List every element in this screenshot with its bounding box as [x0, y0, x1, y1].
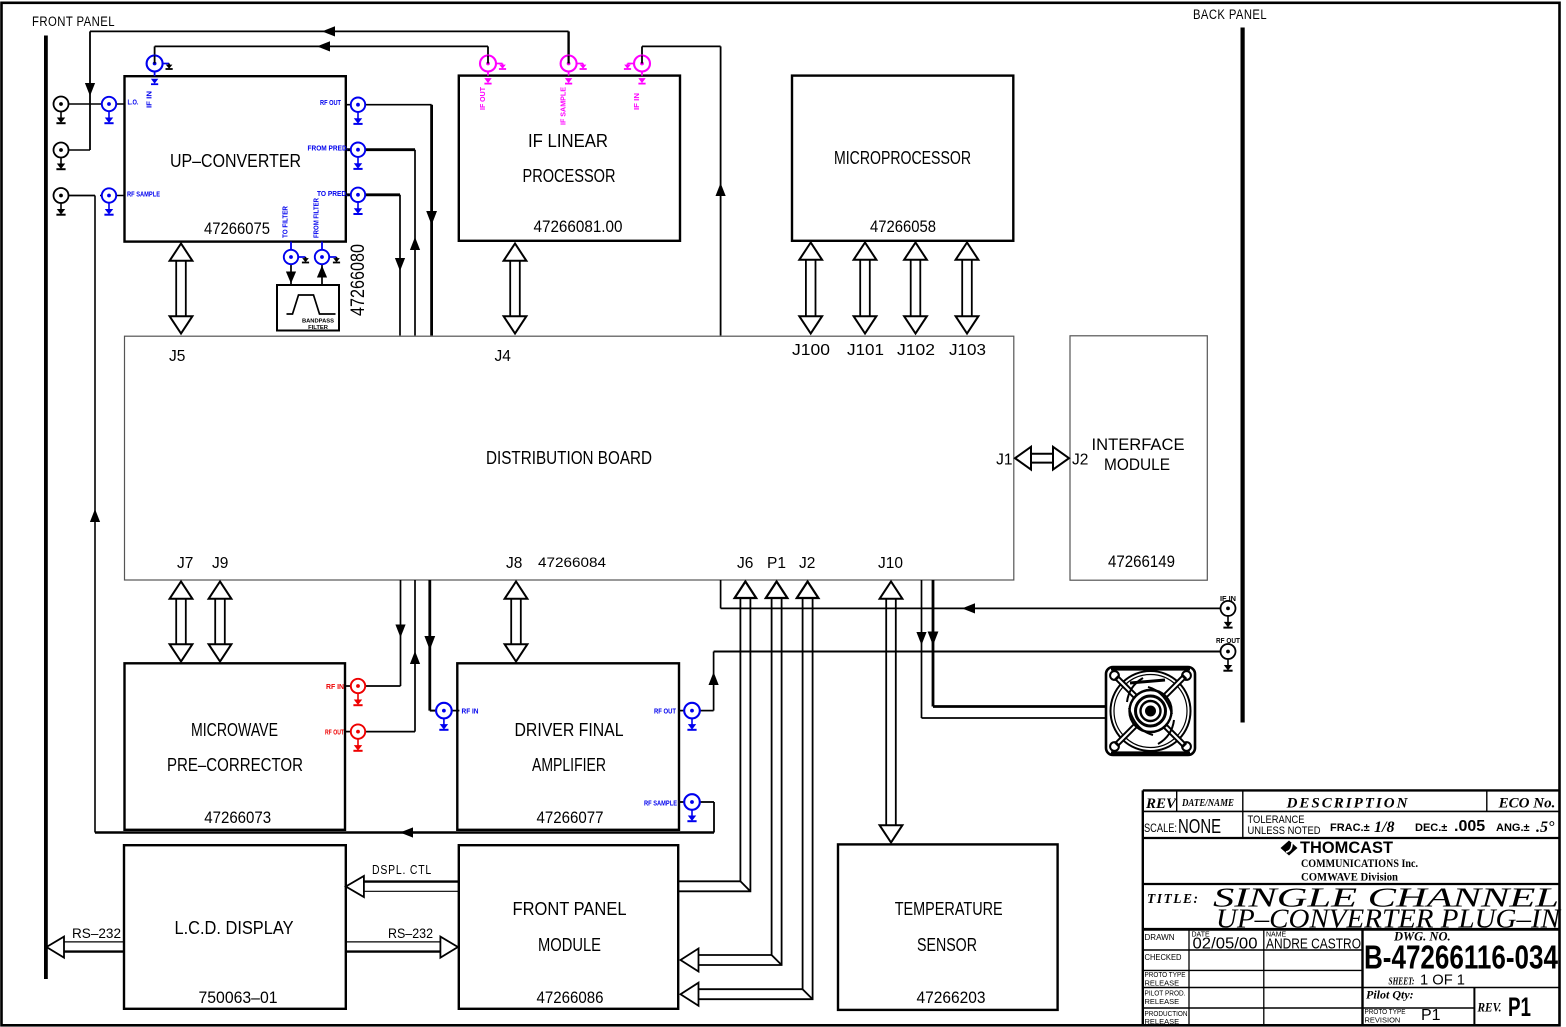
svg-text:RELEASE: RELEASE: [1145, 997, 1180, 1006]
svg-text:1 OF 1: 1 OF 1: [1420, 972, 1465, 989]
svg-text:IF OUT: IF OUT: [480, 86, 487, 110]
svg-text:J10: J10: [878, 555, 903, 572]
svg-text:FRONT PANEL: FRONT PANEL: [513, 899, 627, 919]
svg-text:REV.: REV.: [1477, 1000, 1502, 1015]
svg-text:ECO No.: ECO No.: [1498, 796, 1556, 812]
svg-text:J101: J101: [847, 342, 884, 359]
svg-text:FROM FILTER: FROM FILTER: [314, 198, 321, 238]
svg-text:J7: J7: [177, 555, 193, 572]
svg-text:IF IN: IF IN: [147, 91, 154, 108]
svg-text:PRE–CORRECTOR: PRE–CORRECTOR: [167, 755, 303, 775]
svg-text:ANG.±: ANG.±: [1496, 822, 1530, 834]
svg-text:L.C.D. DISPLAY: L.C.D. DISPLAY: [175, 918, 294, 938]
svg-text:Pilot Qty:: Pilot Qty:: [1366, 988, 1414, 1002]
svg-text:47266075: 47266075: [204, 219, 270, 238]
svg-text:RELEASE: RELEASE: [1145, 979, 1180, 988]
svg-text:.5°: .5°: [1536, 819, 1555, 836]
svg-text:P1: P1: [767, 555, 786, 572]
svg-text:J6: J6: [737, 555, 753, 572]
svg-text:MICROWAVE: MICROWAVE: [191, 720, 278, 740]
svg-text:CHECKED: CHECKED: [1145, 953, 1182, 962]
svg-text:750063–01: 750063–01: [199, 988, 278, 1007]
svg-text:RF OUT: RF OUT: [1216, 636, 1241, 645]
svg-text:47266084: 47266084: [538, 554, 606, 570]
svg-text:J8: J8: [506, 555, 522, 572]
svg-text:IF IN: IF IN: [1220, 594, 1236, 603]
svg-text:J100: J100: [792, 342, 830, 359]
svg-text:RF OUT: RF OUT: [320, 98, 341, 107]
svg-text:UP–CONVERTER PLUG–IN: UP–CONVERTER PLUG–IN: [1216, 904, 1562, 934]
svg-text:BACK PANEL: BACK PANEL: [1193, 7, 1267, 22]
svg-text:J5: J5: [169, 348, 185, 365]
svg-text:J1: J1: [996, 452, 1012, 469]
svg-text:COMMUNICATIONS Inc.: COMMUNICATIONS Inc.: [1301, 858, 1418, 870]
svg-text:RF SAMPLE: RF SAMPLE: [127, 190, 160, 199]
svg-text:DSPL. CTL: DSPL. CTL: [372, 862, 432, 877]
svg-text:IF IN: IF IN: [634, 93, 641, 110]
svg-text:INTERFACE: INTERFACE: [1092, 435, 1185, 454]
svg-text:IF SAMPLE: IF SAMPLE: [561, 87, 568, 125]
svg-text:SENSOR: SENSOR: [917, 935, 977, 955]
svg-text:AMPLIFIER: AMPLIFIER: [532, 755, 606, 775]
svg-text:ANDRE CASTRO: ANDRE CASTRO: [1266, 936, 1361, 953]
svg-text:02/05/00: 02/05/00: [1193, 936, 1258, 953]
svg-text:MODULE: MODULE: [1104, 455, 1170, 474]
svg-text:FRAC.±: FRAC.±: [1330, 822, 1370, 834]
svg-text:FROM PRED.: FROM PRED.: [308, 144, 349, 153]
svg-text:B-47266116-034: B-47266116-034: [1364, 939, 1559, 976]
svg-text:P1: P1: [1508, 992, 1531, 1022]
svg-text:J103: J103: [949, 342, 986, 359]
svg-text:SCALE:: SCALE:: [1144, 823, 1177, 835]
svg-text:RF SAMPLE: RF SAMPLE: [644, 799, 677, 808]
svg-text:UP–CONVERTER: UP–CONVERTER: [170, 151, 301, 171]
svg-text:RS–232: RS–232: [72, 926, 121, 941]
svg-text:MICROPROCESSOR: MICROPROCESSOR: [834, 148, 971, 168]
svg-text:DRIVER FINAL: DRIVER FINAL: [515, 720, 624, 740]
svg-text:L.O.: L.O.: [128, 98, 139, 107]
svg-text:J4: J4: [495, 348, 512, 365]
svg-text:FILTER: FILTER: [308, 325, 329, 331]
svg-text:TEMPERATURE: TEMPERATURE: [895, 899, 1003, 919]
svg-text:DEC.±: DEC.±: [1415, 822, 1447, 834]
svg-text:J2: J2: [1072, 452, 1088, 469]
svg-text:RF IN: RF IN: [326, 682, 344, 691]
svg-text:SHEET:: SHEET:: [1389, 977, 1415, 988]
svg-text:P1: P1: [1421, 1007, 1441, 1024]
svg-text:47266081.00: 47266081.00: [534, 217, 623, 236]
svg-text:BANDPASS: BANDPASS: [302, 319, 334, 325]
svg-text:47266077: 47266077: [537, 808, 604, 827]
svg-text:DRAWN: DRAWN: [1145, 933, 1175, 942]
svg-text:TITLE:: TITLE:: [1147, 891, 1200, 906]
svg-text:IF LINEAR: IF LINEAR: [528, 131, 608, 151]
svg-text:PROCESSOR: PROCESSOR: [523, 166, 616, 186]
svg-text:MODULE: MODULE: [538, 935, 601, 955]
svg-text:J9: J9: [212, 555, 228, 572]
svg-text:47266080: 47266080: [348, 244, 369, 316]
svg-text:NONE: NONE: [1178, 816, 1221, 838]
svg-text:DISTRIBUTION BOARD: DISTRIBUTION BOARD: [486, 448, 652, 468]
svg-text:TO FILTER: TO FILTER: [283, 206, 290, 238]
svg-text:REV: REV: [1145, 796, 1178, 812]
svg-text:J2: J2: [799, 555, 815, 572]
svg-text:DATE/NAME: DATE/NAME: [1181, 797, 1234, 809]
svg-text:UNLESS NOTED: UNLESS NOTED: [1248, 825, 1321, 837]
svg-text:THOMCAST: THOMCAST: [1300, 838, 1394, 857]
svg-text:DESCRIPTION: DESCRIPTION: [1286, 796, 1410, 812]
svg-text:RF OUT: RF OUT: [654, 707, 677, 716]
svg-text:47266149: 47266149: [1108, 552, 1175, 571]
svg-text:.005: .005: [1454, 818, 1485, 835]
svg-text:REVISION: REVISION: [1365, 1016, 1401, 1025]
svg-text:RF IN: RF IN: [462, 707, 479, 716]
svg-text:RF OUT: RF OUT: [325, 728, 344, 737]
svg-text:FRONT PANEL: FRONT PANEL: [32, 14, 115, 29]
svg-text:47266086: 47266086: [537, 988, 604, 1007]
svg-text:47266058: 47266058: [870, 217, 936, 236]
svg-text:RS–232: RS–232: [388, 926, 433, 941]
svg-text:1/8: 1/8: [1374, 819, 1394, 836]
svg-text:47266203: 47266203: [917, 988, 986, 1007]
svg-text:TO PRED.: TO PRED.: [317, 189, 348, 198]
svg-text:47266073: 47266073: [204, 808, 271, 827]
svg-text:RELEASE: RELEASE: [1145, 1017, 1180, 1026]
svg-text:J102: J102: [897, 342, 935, 359]
